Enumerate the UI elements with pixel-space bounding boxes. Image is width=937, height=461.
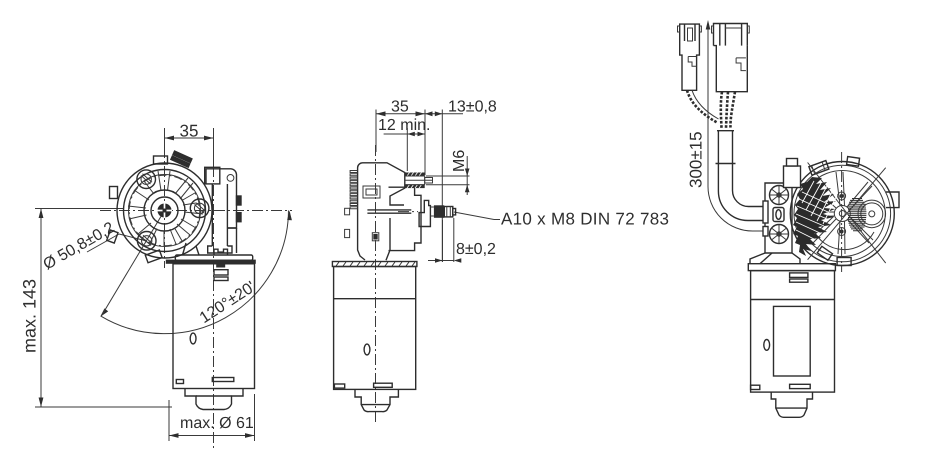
svg-text:12 min.: 12 min. — [378, 117, 430, 134]
svg-text:35: 35 — [180, 122, 199, 141]
svg-text:max. Ø 61: max. Ø 61 — [180, 415, 254, 432]
svg-text:8±0,2: 8±0,2 — [456, 241, 496, 258]
svg-text:300±15: 300±15 — [687, 131, 706, 188]
svg-text:35: 35 — [391, 99, 409, 116]
svg-text:max. 143: max. 143 — [20, 279, 40, 353]
svg-text:M6: M6 — [451, 150, 468, 172]
svg-text:A10 x M8 DIN 72 783: A10 x M8 DIN 72 783 — [501, 210, 669, 229]
svg-text:13±0,8: 13±0,8 — [448, 99, 497, 116]
